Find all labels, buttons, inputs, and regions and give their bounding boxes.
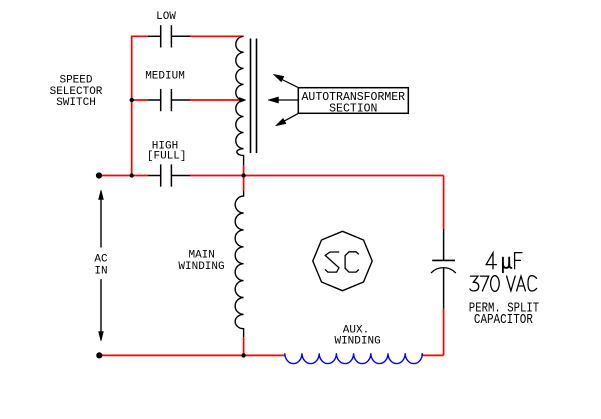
svg-text:IN: IN (94, 265, 107, 277)
svg-text:WINDING: WINDING (178, 261, 224, 273)
svg-text:MAIN: MAIN (188, 249, 214, 261)
svg-text:MEDIUM: MEDIUM (145, 70, 185, 82)
svg-text:[FULL]: [FULL] (147, 151, 187, 163)
svg-text:CAPACITOR: CAPACITOR (474, 312, 533, 328)
svg-text:SPEED: SPEED (59, 75, 92, 87)
svg-text:AC: AC (94, 254, 108, 266)
svg-text:AUX.: AUX. (343, 324, 369, 336)
svg-text:SWITCH: SWITCH (56, 97, 96, 109)
svg-text:SECTION: SECTION (329, 102, 377, 115)
svg-text:WINDING: WINDING (334, 336, 380, 348)
svg-text:LOW: LOW (156, 11, 176, 23)
